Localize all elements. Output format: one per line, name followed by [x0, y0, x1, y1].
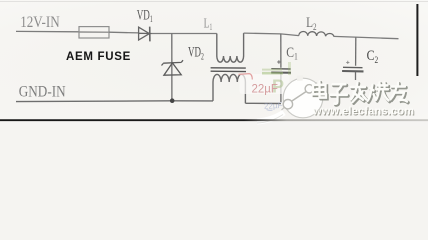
wire: fuse to diode VD1 [109, 31, 139, 34]
svg-text:12V-IN: 12V-IN [20, 14, 60, 31]
chinese watermark text: 电子发烧友 drawn as strokes [313, 81, 408, 105]
zener diode VD2 [162, 60, 184, 75]
wire: ground rail after L1 to output side [245, 102, 281, 104]
diode VD1 [139, 27, 152, 42]
label C2 [367, 48, 379, 65]
capacitor C1 plates [271, 69, 291, 73]
label VD2 [188, 45, 204, 63]
svg-text:22µF: 22µF [252, 84, 278, 96]
junction: VD2 anode to ground rail [170, 98, 175, 103]
node 12V-IN label [20, 14, 60, 31]
capacitor C2 plates [342, 67, 363, 71]
capacitor C1 positive lead [277, 34, 281, 68]
fuse F1 [79, 27, 109, 38]
svg-text:www.elecfans.com: www.elecfans.com [312, 106, 414, 118]
svg-text:GND-IN: GND-IN [19, 83, 66, 100]
label L1 [204, 16, 213, 32]
wire: C2 negative lead down [355, 72, 357, 80]
wire: L1 top to C1 node B [244, 33, 299, 36]
label C1 [286, 45, 297, 62]
wire: node A down to zener VD2 [171, 34, 173, 100]
wire: 12V input rail from terminal to fuse [16, 30, 79, 32]
coupled inductor L1 top winding [217, 33, 244, 62]
black separator line near bottom [0, 0, 1, 1]
pink bracket [239, 74, 253, 80]
green tint over C1 plates [262, 69, 282, 71]
gear logo [257, 75, 323, 123]
wire: VD1 to L1 top (node A) [152, 33, 217, 35]
black bar at right edge [416, 4, 418, 76]
capacitor C2 lead from output rail [346, 38, 356, 66]
label AEM FUSE (fuse value label) [66, 51, 131, 63]
label L2 [306, 15, 317, 33]
svg-text:AEM FUSE: AEM FUSE [66, 51, 131, 63]
wire: ground rail from GND-IN to L1 bottom winding [16, 100, 213, 103]
wire: C1 negative lead to ground rail [280, 74, 282, 103]
node GND-IN label [19, 83, 66, 100]
inductor L2 [299, 31, 334, 36]
wire: L2 to output (node C) [334, 36, 399, 38]
watermark group (decorative) [239, 62, 416, 123]
L1 core (two bars) [211, 68, 246, 72]
label VD1 [137, 7, 153, 25]
coupled inductor L1 bottom winding [213, 74, 245, 103]
